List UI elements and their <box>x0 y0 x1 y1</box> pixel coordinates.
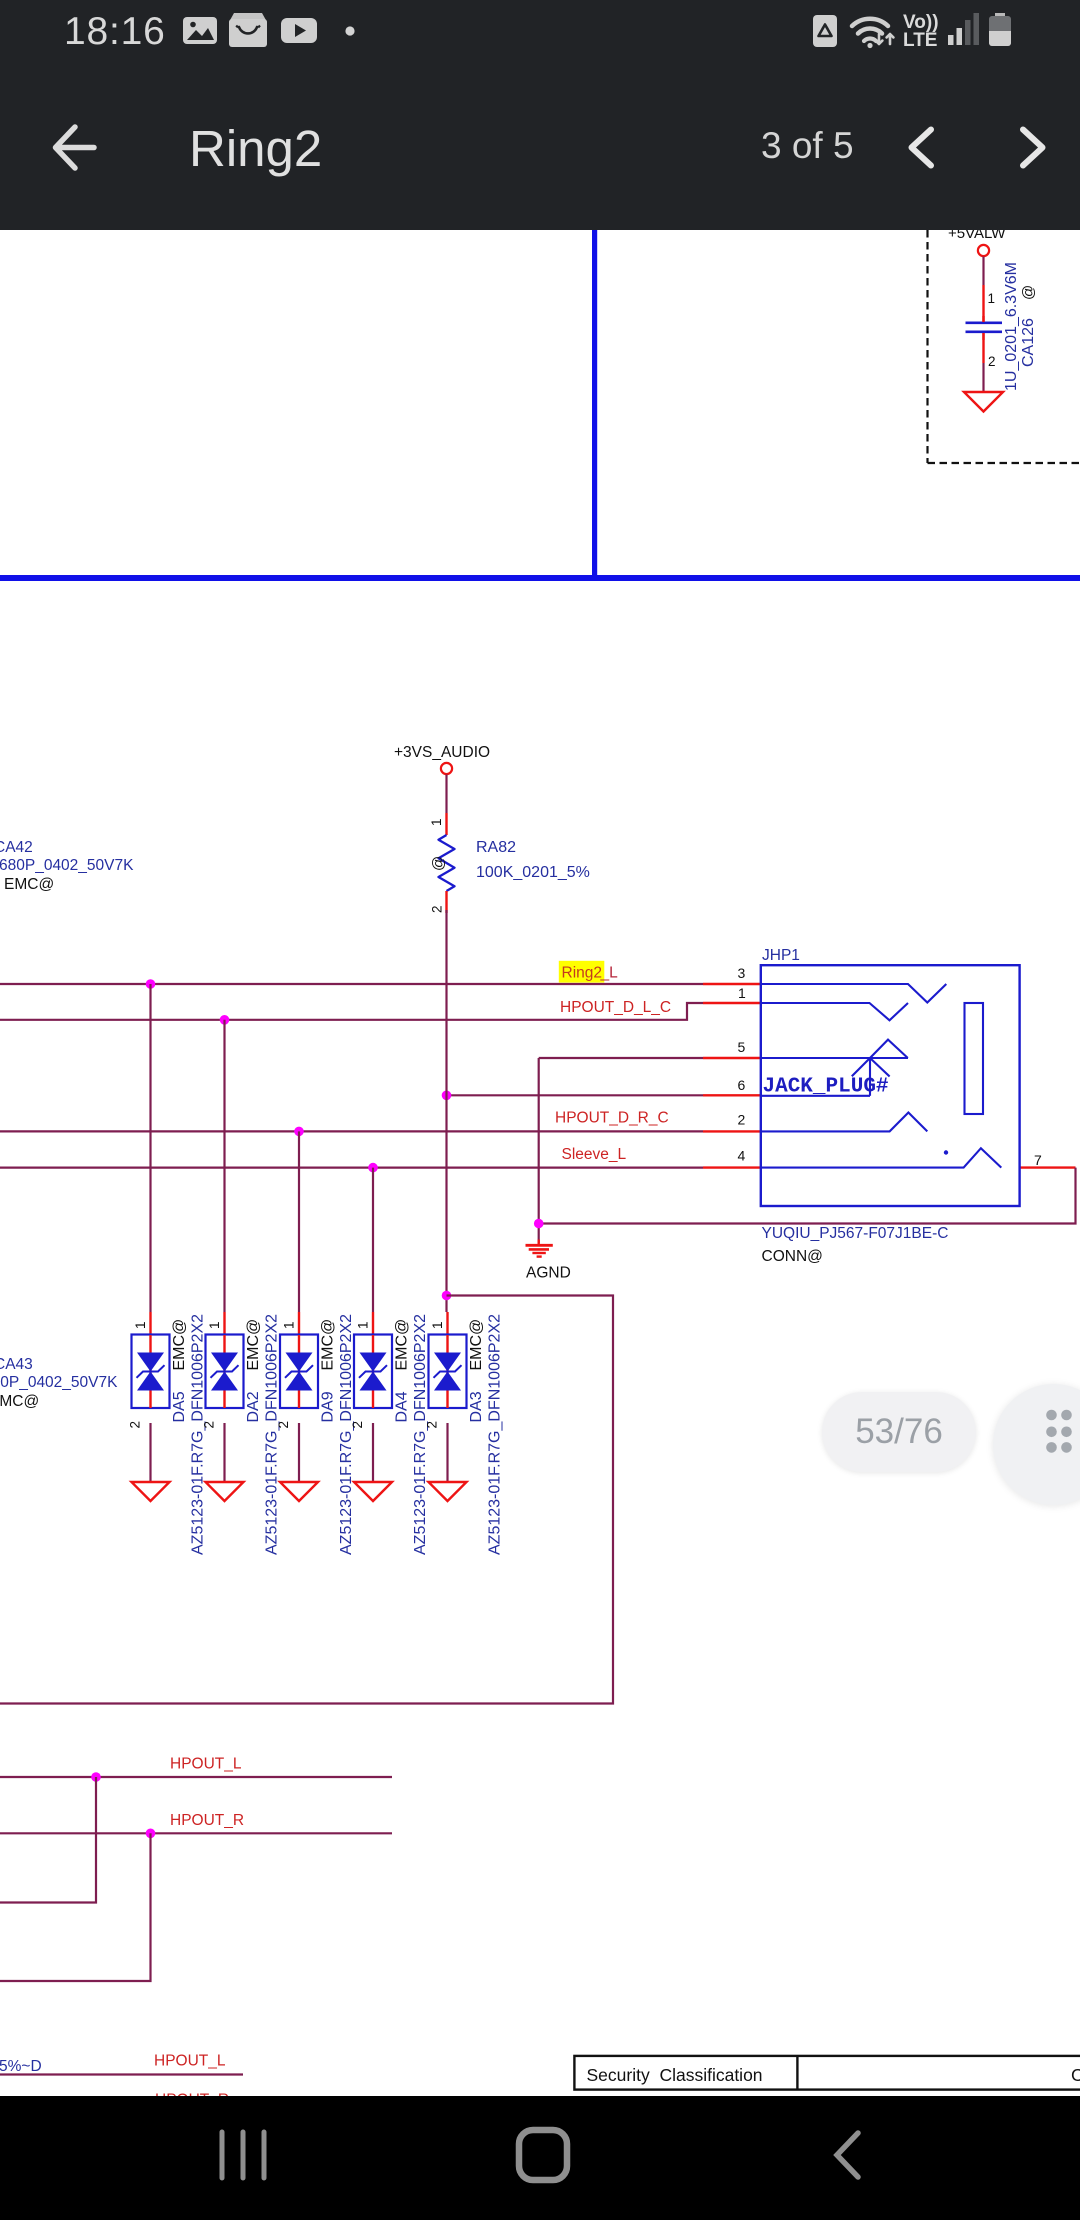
svg-text:2: 2 <box>430 905 445 913</box>
svg-text:2: 2 <box>276 1421 291 1429</box>
svg-text:680P_0402_50V7K: 680P_0402_50V7K <box>0 857 134 874</box>
svg-text:18:16: 18:16 <box>64 10 166 53</box>
vertical wire HPOUT_D_R_C to DA9 <box>298 1131 300 1312</box>
vertical wire RA82 to DA3 <box>445 910 447 1312</box>
svg-text:CA126: CA126 <box>1020 318 1037 367</box>
next chevron <box>1023 130 1043 166</box>
svg-text:4: 4 <box>738 1148 746 1164</box>
svg-text:CONN@: CONN@ <box>762 1248 823 1265</box>
svg-text:DA2: DA2 <box>245 1391 262 1422</box>
battery icon <box>989 13 1011 46</box>
svg-text:5: 5 <box>738 1039 746 1055</box>
wire +3VS_AUDIO to RA82 <box>445 775 447 814</box>
ground (power gnd triangle) <box>964 392 1003 412</box>
svg-text:EMC@: EMC@ <box>4 876 54 893</box>
svg-text:AZ5123-01F.R7G_DFN1006P2X2: AZ5123-01F.R7G_DFN1006P2X2 <box>487 1314 504 1555</box>
wire net HPOUT_L <box>0 1776 392 1778</box>
pin 5 internal contact with tip arrow <box>762 1040 908 1096</box>
signal bars <box>948 13 979 45</box>
svg-text:2: 2 <box>128 1421 143 1429</box>
svg-text:EMC@: EMC@ <box>171 1319 188 1371</box>
wire HPOUT_L branch down <box>0 1777 96 1903</box>
title block Security Classification <box>574 2056 1080 2090</box>
svg-text:Ring2: Ring2 <box>562 965 603 982</box>
svg-text:1: 1 <box>282 1321 297 1329</box>
pin 6 internal contact <box>762 1095 870 1097</box>
pin 2 internal contact <box>762 1113 927 1132</box>
junction pin6 net lower <box>442 1291 452 1301</box>
diode DA3 <box>425 1312 504 1555</box>
junction on HPOUT_L <box>91 1772 101 1782</box>
junction on Ring2_L at DA5 <box>146 979 156 989</box>
svg-text:1U_0201_6.3V6M: 1U_0201_6.3V6M <box>1003 262 1020 391</box>
pin stub net HPOUT_D_L_C to pin 1 <box>703 1002 760 1004</box>
wire HPOUT_R branch down <box>0 1833 151 1981</box>
sleeve contact bar <box>965 1003 984 1114</box>
svg-text:JHP1: JHP1 <box>762 947 800 964</box>
pin 2 of RA82 <box>445 891 447 913</box>
pin 2 of CA126 <box>982 333 984 363</box>
pin stub pin 7 <box>1020 1166 1076 1168</box>
page indicator pill <box>822 1392 976 1472</box>
vertical wire HPOUT_D_L_C to DA2 <box>223 1020 225 1312</box>
svg-text:3: 3 <box>738 965 746 981</box>
back arrow <box>56 127 95 168</box>
vertical wire Ring2_L to DA5 <box>149 984 151 1312</box>
svg-text:1: 1 <box>207 1321 222 1329</box>
pin 3 internal contact <box>762 984 946 1003</box>
svg-text:_L: _L <box>600 965 619 982</box>
svg-text:EMC@: EMC@ <box>468 1319 485 1371</box>
sheet border vertical line <box>592 230 597 578</box>
capacitor CA126 <box>966 316 1003 340</box>
svg-text:@: @ <box>1020 285 1037 300</box>
pin 1 of CA126 <box>982 285 984 322</box>
sheet border horizontal line <box>0 575 1080 581</box>
svg-text:HPOUT_D_R_C: HPOUT_D_R_C <box>555 1110 669 1127</box>
svg-text:1: 1 <box>988 291 996 306</box>
dashed EMC region border horizontal <box>928 462 1080 464</box>
power symbol +5VALW <box>948 225 1006 256</box>
svg-text:JACK_PLUG#: JACK_PLUG# <box>763 1076 889 1099</box>
svg-text:1: 1 <box>356 1321 371 1329</box>
wire pin6 net loop right and down <box>0 1296 613 1704</box>
notification dot <box>345 26 354 35</box>
svg-text:HPOUT_D_L_C: HPOUT_D_L_C <box>560 999 671 1016</box>
svg-text:AZ5123-01F.R7G_DFN1006P2X2: AZ5123-01F.R7G_DFN1006P2X2 <box>190 1314 207 1555</box>
diode DA9 <box>276 1312 355 1555</box>
svg-text:AZ5123-01F.R7G_DFN1006P2X2: AZ5123-01F.R7G_DFN1006P2X2 <box>338 1314 355 1555</box>
wire to pin 5 <box>539 1057 703 1059</box>
wire net HPOUT_D_R_C <box>0 1130 703 1132</box>
svg-text:AGND: AGND <box>526 1265 571 1282</box>
svg-text:EMC@: EMC@ <box>320 1319 337 1371</box>
wire net HPOUT_R <box>0 1832 392 1834</box>
junction pin6 net at RA82 column <box>442 1091 452 1101</box>
wire pin 7 return to AGND <box>539 1168 1076 1224</box>
junction at AGND <box>534 1219 544 1229</box>
svg-text:DA9: DA9 <box>320 1391 337 1422</box>
pin stub net HPOUT_D_R_C to pin 2 <box>703 1130 760 1132</box>
junction on Sleeve_L at DA4 <box>368 1163 378 1173</box>
svg-text:+3VS_AUDIO: +3VS_AUDIO <box>394 744 490 761</box>
connector JHP1 body <box>761 965 1020 1206</box>
floating handle button <box>993 1384 1080 1505</box>
vertical wire Sleeve_L to DA4 <box>372 1168 374 1312</box>
svg-text:HPOUT_L: HPOUT_L <box>170 1756 242 1773</box>
gallery notification icon <box>183 17 217 44</box>
wire pin5 net down to AGND <box>538 1058 540 1243</box>
svg-text:2: 2 <box>988 354 996 369</box>
power symbol +3VS_AUDIO <box>394 744 490 774</box>
svg-text:DA3: DA3 <box>468 1391 485 1422</box>
svg-text:6: 6 <box>738 1077 746 1093</box>
svg-text:@: @ <box>430 856 447 871</box>
svg-text:3 of 5: 3 of 5 <box>761 125 854 166</box>
store bag notification icon <box>229 13 267 47</box>
stray dot <box>944 1150 948 1154</box>
wire net HPOUT_L (bottom) <box>0 2073 243 2075</box>
wire net Ring2_L <box>0 983 703 985</box>
svg-text:Ring2: Ring2 <box>189 120 322 177</box>
svg-text:EMC@: EMC@ <box>394 1319 411 1371</box>
svg-text:680P_0402_50V7K: 680P_0402_50V7K <box>0 1374 118 1391</box>
svg-text:1: 1 <box>429 818 444 826</box>
svg-text:DA5: DA5 <box>171 1391 188 1422</box>
diode DA5 <box>128 1312 207 1555</box>
junction on HPOUT_R <box>146 1829 156 1839</box>
svg-text:CA43: CA43 <box>0 1356 33 1373</box>
pin stub pin 6 <box>703 1094 760 1096</box>
svg-text:YUQIU_PJ567-F07J1BE-C: YUQIU_PJ567-F07J1BE-C <box>762 1225 949 1242</box>
svg-text:Security Classification: Security Classification <box>587 2065 763 2085</box>
dashed EMC region border vertical <box>926 230 928 463</box>
wire +5VALW to CA126 <box>982 257 984 286</box>
pin 1 of RA82 <box>445 813 447 835</box>
svg-text:HPOUT_R: HPOUT_R <box>170 1812 244 1829</box>
wire to pin 6 <box>447 1094 704 1096</box>
svg-text:AZ5123-01F.R7G_DFN1006P2X2: AZ5123-01F.R7G_DFN1006P2X2 <box>264 1314 281 1555</box>
svg-text:EMC@: EMC@ <box>245 1319 262 1371</box>
svg-text:2: 2 <box>738 1112 746 1128</box>
wire CA126 to ground <box>982 363 984 392</box>
svg-text:2: 2 <box>425 1421 440 1429</box>
junction on HPOUT_D_L_C at DA2 <box>220 1015 230 1025</box>
svg-text:100K_0201_5%: 100K_0201_5% <box>476 864 590 881</box>
svg-text:2: 2 <box>202 1421 217 1429</box>
net label Ring2_L (highlighted) <box>559 961 618 983</box>
pin 4 internal contact <box>762 1148 1001 1167</box>
diode DA4 <box>350 1312 429 1555</box>
svg-text:RA82: RA82 <box>476 839 516 856</box>
ground AGND symbol <box>526 1240 553 1257</box>
svg-text:DA4: DA4 <box>394 1391 411 1422</box>
power saving battery icon <box>813 15 837 47</box>
pin stub net Ring2_L to pin 3 <box>703 983 760 985</box>
svg-text:Sleeve_L: Sleeve_L <box>562 1146 627 1163</box>
svg-text:1: 1 <box>430 1321 445 1329</box>
svg-text:1: 1 <box>738 985 746 1001</box>
wire net Sleeve_L <box>0 1166 703 1168</box>
resistor RA82 <box>439 835 455 891</box>
junction on HPOUT_D_R_C at DA9 <box>294 1127 304 1137</box>
svg-text:1: 1 <box>133 1321 148 1329</box>
wifi icon <box>852 19 893 48</box>
youtube notification icon <box>281 18 317 43</box>
prev chevron <box>912 130 932 166</box>
svg-text:C: C <box>1071 2065 1080 2085</box>
pin 1 internal contact <box>762 1003 908 1020</box>
diode DA2 <box>202 1312 281 1555</box>
pin stub pin 5 <box>703 1057 760 1059</box>
svg-text:HPOUT_L: HPOUT_L <box>154 2053 226 2070</box>
svg-text:AZ5123-01F.R7G_DFN1006P2X2: AZ5123-01F.R7G_DFN1006P2X2 <box>412 1314 429 1555</box>
svg-text:2: 2 <box>350 1421 365 1429</box>
svg-text:LTE: LTE <box>903 30 937 51</box>
svg-text:EMC@: EMC@ <box>0 1393 39 1410</box>
wire net HPOUT_D_L_C <box>0 1003 703 1020</box>
svg-text:7: 7 <box>1034 1152 1042 1168</box>
svg-text:5%~D: 5%~D <box>0 2058 42 2075</box>
svg-text:CA42: CA42 <box>0 839 33 856</box>
pin stub net Sleeve_L to pin 4 <box>703 1166 760 1168</box>
